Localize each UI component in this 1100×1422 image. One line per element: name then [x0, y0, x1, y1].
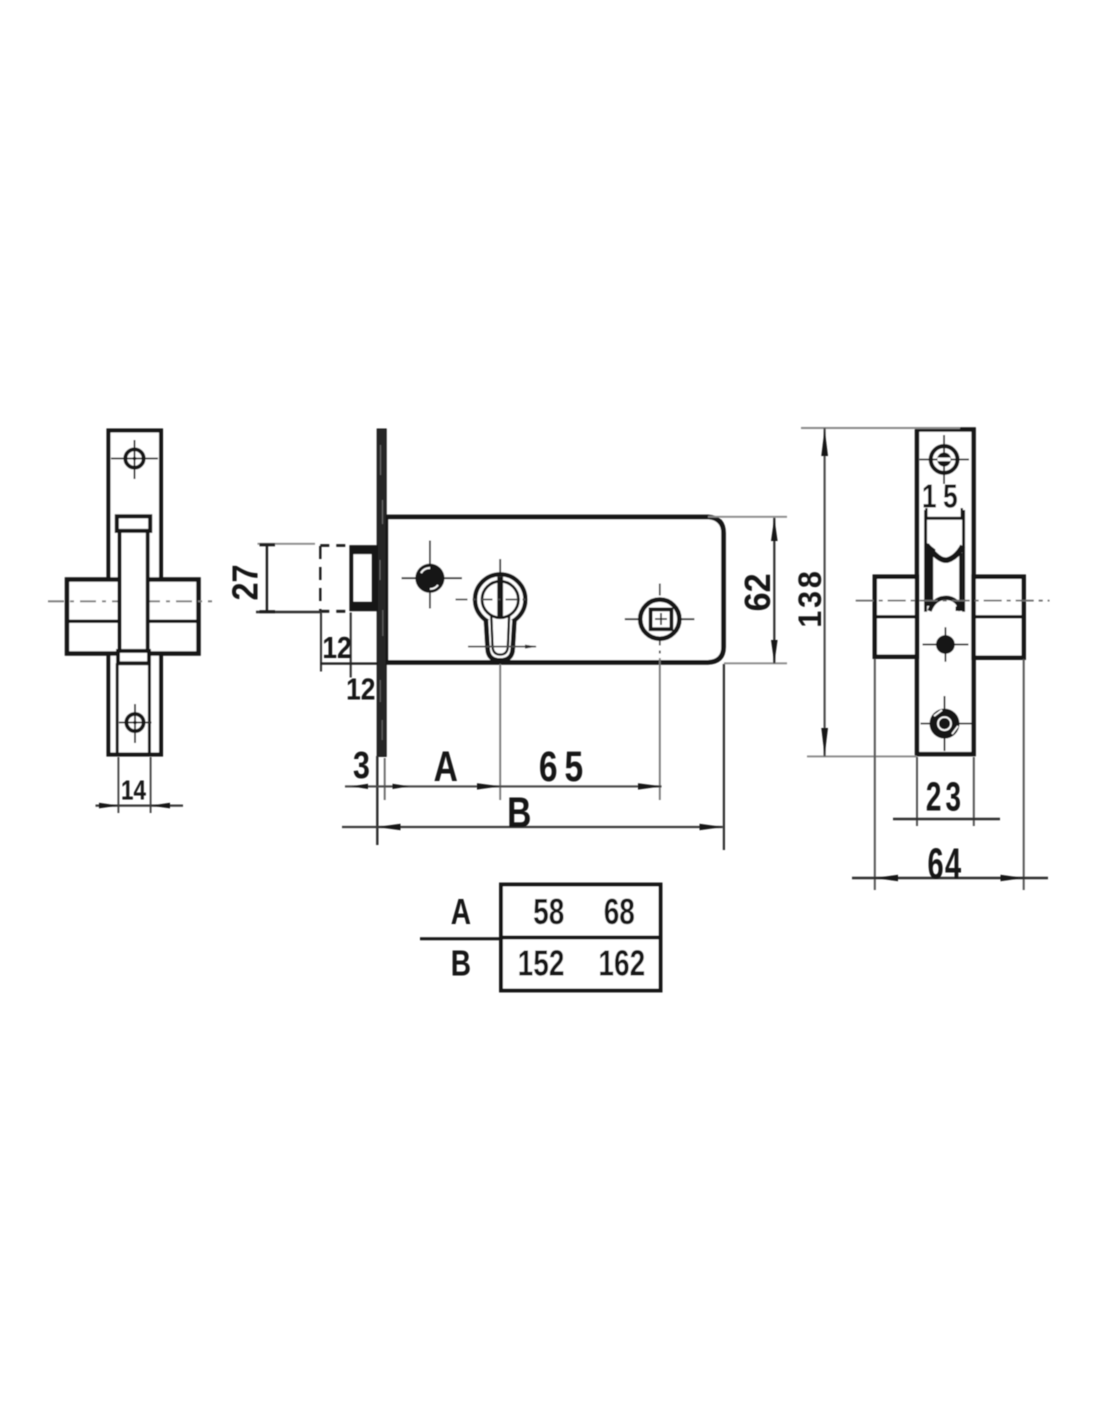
right case block	[856, 577, 1050, 658]
dim 12 12	[321, 613, 378, 708]
dim 64	[852, 659, 1048, 890]
svg-text:65: 65	[539, 743, 590, 791]
table leader line	[420, 937, 501, 940]
left top screw	[111, 440, 158, 479]
svg-text:27: 27	[226, 564, 266, 600]
euro cylinder	[456, 559, 538, 660]
table divider	[501, 935, 661, 939]
latch solid head	[349, 545, 377, 611]
right bottom screw	[921, 696, 972, 751]
right top screw	[920, 435, 970, 484]
svg-text:A: A	[451, 891, 471, 931]
svg-text:14: 14	[121, 775, 146, 806]
middle screw	[402, 541, 463, 609]
dim 15	[922, 479, 964, 517]
right faceplate	[917, 430, 974, 755]
middle faceplate (dark strip)	[377, 429, 386, 756]
follower (square hole)	[625, 584, 695, 658]
svg-text:12: 12	[346, 673, 375, 707]
left slot below latch	[116, 663, 119, 752]
svg-text:138: 138	[792, 568, 828, 627]
svg-text:B: B	[507, 789, 531, 837]
left bottom screw	[119, 704, 152, 743]
svg-text:15: 15	[922, 479, 964, 515]
dim 3 A 65	[345, 658, 662, 845]
dim 138	[792, 428, 960, 756]
dim B	[342, 664, 724, 850]
lock body	[386, 517, 724, 662]
dim 14	[96, 757, 184, 813]
svg-text:62: 62	[738, 573, 778, 611]
svg-text:162: 162	[598, 943, 645, 983]
svg-text:152: 152	[518, 943, 565, 983]
dim 23	[893, 757, 1000, 826]
svg-text:64: 64	[928, 838, 963, 888]
svg-text:A: A	[434, 743, 458, 791]
svg-text:68: 68	[604, 891, 635, 931]
svg-text:23: 23	[926, 774, 965, 820]
svg-text:B: B	[451, 943, 471, 983]
table box	[501, 885, 661, 991]
svg-text:3: 3	[353, 745, 370, 787]
left faceplate	[109, 431, 162, 755]
dim 27	[226, 544, 321, 613]
right pin	[923, 627, 969, 661]
svg-text:12: 12	[322, 631, 351, 665]
right latch roller	[927, 545, 963, 560]
svg-text:58: 58	[533, 891, 564, 931]
dim 62	[708, 517, 787, 664]
latch dashed tip	[320, 546, 349, 612]
right latch slot	[926, 510, 964, 612]
left latch bolt	[117, 516, 150, 663]
left case block	[48, 580, 212, 654]
